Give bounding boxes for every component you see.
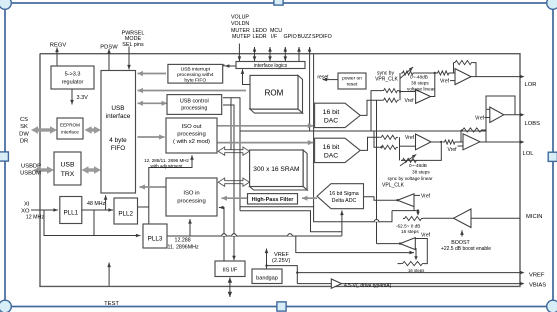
svg-text:EEPROM: EEPROM	[60, 123, 80, 128]
svg-text:-62.5~ 0 dB: -62.5~ 0 dB	[396, 223, 420, 228]
svg-text:LOR: LOR	[525, 82, 537, 88]
svg-text:Vref: Vref	[405, 98, 415, 104]
svg-text:sync by: sync by	[377, 70, 394, 76]
svg-text:16 bit: 16 bit	[323, 109, 340, 116]
svg-text:BUZZ: BUZZ	[298, 34, 313, 40]
svg-text:VBIAS: VBIAS	[529, 283, 546, 289]
svg-text:byte FIFO: byte FIFO	[184, 78, 206, 84]
svg-text:TRX: TRX	[61, 171, 75, 178]
svg-text:( with x2 mod): ( with x2 mod)	[173, 139, 210, 145]
svg-text:PLL1: PLL1	[63, 210, 78, 217]
svg-text:ISO in: ISO in	[183, 190, 199, 196]
svg-text:Vref: Vref	[440, 79, 450, 85]
svg-text:USB control: USB control	[180, 98, 209, 104]
svg-text:power on: power on	[342, 75, 362, 81]
svg-text:Delta ADC: Delta ADC	[332, 198, 357, 204]
svg-text:USB: USB	[61, 162, 75, 169]
svg-text:+22.5 dB boost enable: +22.5 dB boost enable	[441, 246, 491, 252]
svg-text:VREF: VREF	[529, 272, 545, 278]
svg-text:LOBS: LOBS	[525, 121, 541, 127]
svg-text:MUTEP: MUTEP	[232, 34, 251, 40]
svg-text:16 steps: 16 steps	[408, 268, 424, 273]
svg-text:Vref: Vref	[421, 194, 431, 200]
svg-text:Vref: Vref	[421, 233, 431, 239]
svg-text:MICIN: MICIN	[526, 214, 542, 220]
svg-text:VPR_CLK: VPR_CLK	[375, 77, 398, 83]
svg-text:MCU: MCU	[270, 28, 282, 34]
svg-text:LOL: LOL	[523, 151, 535, 157]
svg-text:with adjustment: with adjustment	[151, 163, 184, 168]
svg-text:DW: DW	[19, 131, 29, 137]
svg-text:5->3.3: 5->3.3	[65, 71, 81, 77]
svg-text:DAC: DAC	[324, 152, 338, 159]
svg-text:processing: processing	[181, 105, 207, 111]
svg-text:FIFO: FIFO	[111, 145, 126, 152]
svg-text:Vref: Vref	[475, 116, 485, 122]
svg-text:IIS I/F: IIS I/F	[223, 268, 239, 274]
svg-text:16 steps: 16 steps	[401, 229, 419, 234]
svg-text:38 steps: 38 steps	[411, 80, 429, 85]
svg-text:XI: XI	[24, 202, 30, 208]
svg-text:300 x 16 SRAM: 300 x 16 SRAM	[253, 166, 299, 173]
svg-text:regulator: regulator	[62, 79, 84, 85]
svg-text:SEL pins: SEL pins	[122, 42, 144, 48]
svg-text:16 bit: 16 bit	[323, 144, 340, 151]
svg-text:SPDIFO: SPDIFO	[312, 34, 332, 40]
svg-text:USB interrupt: USB interrupt	[181, 67, 211, 73]
svg-text:interface: interface	[61, 130, 79, 135]
svg-text:VOLDN: VOLDN	[231, 21, 249, 27]
svg-text:BOOST: BOOST	[451, 240, 470, 246]
svg-text:I/F: I/F	[271, 34, 278, 40]
svg-text:REGV: REGV	[50, 43, 67, 49]
svg-text:processing with4: processing with4	[177, 72, 214, 78]
svg-text:VPL_CLK: VPL_CLK	[382, 183, 405, 189]
svg-text:USB: USB	[111, 105, 124, 112]
svg-text:0~-48dB: 0~-48dB	[410, 74, 428, 79]
svg-text:MUTER: MUTER	[231, 28, 250, 34]
svg-text:PLL3: PLL3	[148, 236, 163, 243]
svg-text:PDSW: PDSW	[100, 44, 118, 50]
svg-text:processing: processing	[177, 198, 206, 204]
svg-text:PLL2: PLL2	[118, 211, 133, 218]
svg-text:VOLUP: VOLUP	[231, 15, 249, 21]
svg-text:LEDO: LEDO	[253, 28, 267, 34]
svg-text:interface: interface	[106, 113, 131, 120]
svg-text:USBDM: USBDM	[20, 171, 41, 177]
svg-text:3.3V: 3.3V	[77, 95, 89, 101]
svg-text:GPIO: GPIO	[284, 34, 297, 40]
svg-text:SK: SK	[20, 124, 28, 130]
svg-text:12 MHz: 12 MHz	[26, 214, 45, 220]
svg-text:processing: processing	[177, 132, 206, 138]
svg-text:16 bit Sigma: 16 bit Sigma	[329, 191, 358, 197]
svg-text:CS: CS	[20, 117, 28, 123]
svg-text:High-Pass Filter: High-Pass Filter	[252, 197, 295, 203]
svg-text:4.5-V(, drive typ4mA): 4.5-V(, drive typ4mA)	[344, 283, 392, 289]
svg-text:12.288: 12.288	[175, 238, 191, 244]
svg-text:sync by voltage linear: sync by voltage linear	[388, 176, 434, 181]
svg-text:48 MHz: 48 MHz	[87, 201, 106, 207]
svg-text:DR: DR	[20, 139, 28, 145]
svg-text:Vref: Vref	[405, 135, 415, 141]
svg-text:11. 2896MHz: 11. 2896MHz	[168, 245, 199, 251]
svg-text:DAC: DAC	[324, 117, 338, 124]
svg-text:ISO out: ISO out	[182, 124, 202, 130]
svg-text:LEDR: LEDR	[253, 34, 267, 40]
svg-text:bandgap: bandgap	[256, 275, 278, 281]
svg-text:ROM: ROM	[265, 88, 284, 97]
svg-text:Vref: Vref	[448, 147, 458, 153]
svg-text:(2.25V): (2.25V)	[272, 258, 290, 264]
svg-text:USBDP: USBDP	[21, 164, 41, 170]
svg-text:4 byte: 4 byte	[109, 137, 127, 144]
svg-text:38 steps: 38 steps	[412, 169, 430, 174]
svg-text:0~-48dB: 0~-48dB	[409, 163, 427, 168]
svg-text:voltage linear: voltage linear	[407, 86, 435, 91]
svg-text:reset: reset	[347, 81, 358, 87]
svg-text:12. 288/11. 2896 MHz: 12. 288/11. 2896 MHz	[144, 158, 190, 163]
svg-text:reset: reset	[317, 74, 329, 80]
svg-text:interface logics: interface logics	[254, 63, 288, 69]
svg-text:VREF: VREF	[274, 252, 290, 258]
